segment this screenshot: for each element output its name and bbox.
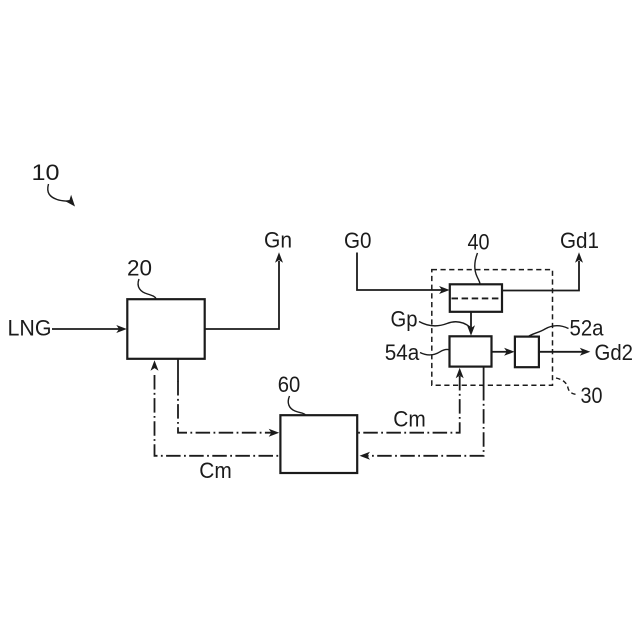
svg-text:G0: G0: [344, 228, 372, 253]
leader for 40: [475, 253, 480, 284]
svg-text:60: 60: [278, 372, 301, 397]
box 40: [450, 284, 502, 312]
leader for 54a: [420, 349, 450, 355]
dash-dot wire box 60 right output up into box 54a bottom: [357, 368, 463, 433]
wire box 40 output to Gd1: [502, 252, 583, 290]
dashed box 30: [432, 270, 553, 386]
wire box 20 output to Gn: [205, 252, 283, 329]
leader for 52a: [528, 326, 569, 337]
leader for 20: [138, 279, 156, 299]
wire box 52a output to Gd2: [539, 348, 590, 356]
svg-text:Gp: Gp: [391, 307, 418, 332]
wire box 40 down to box 54a (Gp line): [467, 312, 475, 336]
wire box 54a to box 52a: [492, 348, 515, 356]
leader arrow for 10: [48, 184, 75, 207]
leader for Gp: [419, 322, 470, 328]
svg-text:52a: 52a: [570, 316, 604, 341]
wire LNG input arrow into box 20: [52, 325, 127, 333]
svg-text:Gn: Gn: [264, 228, 292, 253]
dashed line inside box 40: [452, 297, 501, 299]
svg-text:Gd2: Gd2: [595, 340, 634, 365]
svg-text:10: 10: [32, 160, 60, 185]
svg-text:30: 30: [581, 383, 603, 408]
leader for 60: [288, 396, 305, 415]
dashed leader for 30: [556, 378, 579, 395]
svg-text:Cm: Cm: [393, 407, 426, 432]
wire box 54a bottom down then left into box 60 right input: [360, 367, 484, 460]
box 60: [280, 415, 357, 473]
svg-text:40: 40: [468, 230, 490, 255]
svg-text:Gd1: Gd1: [560, 228, 599, 253]
svg-text:Cm: Cm: [199, 458, 232, 483]
dash-dot wire box 60 left output up into box 20 bottom: [151, 360, 281, 456]
svg-text:LNG: LNG: [8, 316, 52, 341]
dash-dot wire box 20 bottom to box 60 left input: [178, 359, 279, 437]
wire G0 into box 40: [357, 253, 450, 295]
svg-text:54a: 54a: [385, 340, 420, 365]
box 54a: [450, 336, 492, 366]
box 20: [127, 299, 204, 359]
svg-text:20: 20: [127, 256, 152, 281]
box 52a: [515, 337, 539, 368]
